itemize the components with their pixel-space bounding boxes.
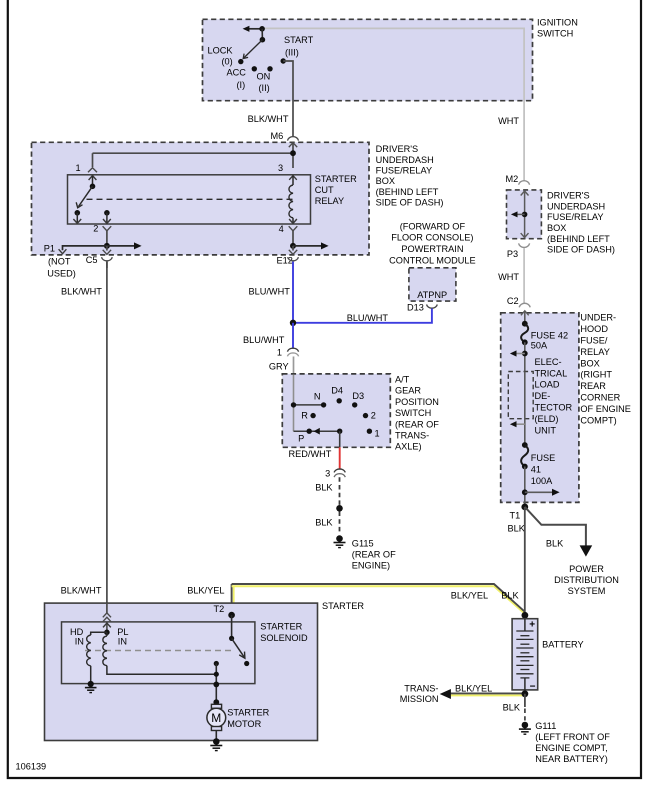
svg-text:UNDERDASH: UNDERDASH — [376, 155, 434, 165]
svg-text:ACC: ACC — [227, 68, 247, 78]
svg-text:BLK: BLK — [315, 483, 333, 493]
svg-text:3: 3 — [325, 468, 330, 478]
wire BLK dashed to splice — [339, 477, 341, 505]
pin 4 — [279, 224, 298, 246]
svg-text:BLK: BLK — [508, 524, 526, 534]
wire BLK/WHT into solenoid — [103, 603, 111, 632]
connector C5 — [86, 246, 113, 268]
svg-text:(RIGHT: (RIGHT — [580, 370, 612, 380]
svg-text:M6: M6 — [271, 131, 284, 141]
in-line connector 3 (RED/WHT to BLK) — [325, 468, 345, 478]
svg-text:STARTER: STARTER — [315, 174, 357, 184]
svg-text:41: 41 — [531, 465, 541, 475]
svg-text:C2: C2 — [507, 296, 519, 306]
wire through ELD — [524, 372, 526, 443]
contact R — [310, 413, 315, 418]
M2 box internal wire with arrows — [511, 191, 529, 239]
wire into box with arrow — [521, 311, 529, 323]
svg-text:+: + — [529, 619, 535, 630]
svg-text:MOTOR: MOTOR — [227, 719, 261, 729]
svg-text:D3: D3 — [352, 391, 364, 401]
svg-text:ATPNP: ATPNP — [417, 290, 447, 300]
svg-text:WHT: WHT — [498, 116, 519, 126]
A/T position labels — [298, 386, 380, 444]
svg-text:ON: ON — [257, 71, 271, 81]
node under pin 2 with P1 branch — [44, 242, 142, 278]
labels HD IN / PL IN — [70, 627, 128, 646]
svg-text:C5: C5 — [86, 255, 98, 265]
connector E12 — [277, 246, 299, 266]
svg-text:A/T: A/T — [395, 375, 410, 385]
svg-text:SYSTEM: SYSTEM — [568, 586, 606, 596]
wire BLK/YEL to transmission with arrow — [440, 689, 525, 699]
contact START — [281, 58, 286, 63]
svg-text:(REAR OF: (REAR OF — [395, 419, 439, 429]
underhood fuse/relay box — [501, 313, 579, 503]
solenoid junction — [104, 630, 110, 636]
svg-text:BLU/WHT: BLU/WHT — [249, 286, 291, 296]
wire RED/WHT — [339, 447, 341, 469]
contact D4 — [337, 398, 342, 403]
svg-text:LOCK: LOCK — [208, 45, 234, 55]
relay switch arm — [73, 184, 95, 224]
svg-text:SWITCH: SWITCH — [537, 29, 573, 39]
svg-text:SWITCH: SWITCH — [395, 408, 431, 418]
connector M6 — [271, 131, 299, 153]
svg-text:(0): (0) — [222, 57, 233, 67]
wire BLU/WHT junction to ATPNP — [293, 309, 432, 323]
fuse 42 50A — [521, 321, 568, 351]
label A/T GEAR POSITION SWITCH (REAR OF TRANS-AXLE) — [395, 375, 439, 452]
svg-text:ELEC-: ELEC- — [535, 357, 562, 367]
svg-text:POSITION: POSITION — [395, 397, 439, 407]
svg-text:M2: M2 — [506, 174, 519, 184]
svg-text:CUT: CUT — [315, 185, 334, 195]
svg-text:DRIVER'S: DRIVER'S — [547, 191, 590, 201]
svg-text:RELAY: RELAY — [315, 196, 344, 206]
svg-text:T1: T1 — [510, 511, 521, 521]
svg-text:1: 1 — [76, 163, 81, 173]
svg-text:−: − — [530, 681, 536, 692]
label STARTER CUT RELAY — [315, 174, 357, 206]
connector M2 — [506, 174, 530, 185]
svg-text:(FORWARD OF: (FORWARD OF — [400, 221, 466, 231]
labels BLK/YEL BLK — [187, 585, 519, 600]
svg-text:START: START — [284, 35, 314, 45]
svg-text:1: 1 — [277, 348, 282, 358]
svg-text:(II): (II) — [259, 83, 270, 93]
connector P3 — [507, 243, 530, 259]
pin 1 — [76, 163, 98, 186]
wire BLK to G111 — [524, 694, 526, 707]
svg-text:SIDE OF DASH): SIDE OF DASH) — [376, 198, 444, 208]
wire to T1 with right-arrow tap — [522, 467, 560, 507]
wire WHT P3 to C2 — [523, 248, 525, 303]
svg-text:N: N — [314, 391, 321, 401]
svg-text:(I): (I) — [237, 80, 246, 90]
svg-text:GRY: GRY — [269, 361, 289, 371]
ignition position labels — [208, 35, 314, 93]
svg-text:WHT: WHT — [498, 272, 519, 282]
svg-text:FUSE/RELAY: FUSE/RELAY — [547, 212, 604, 222]
svg-text:BOX: BOX — [547, 223, 566, 233]
label ELECTRICAL LOAD DETECTOR (ELD) UNIT — [535, 357, 573, 436]
starter cut relay outer dashed box (driver's underdash fuse/relay box) — [32, 142, 370, 255]
svg-text:TECTOR: TECTOR — [535, 403, 573, 413]
wire BLU/WHT junction down — [292, 323, 294, 348]
battery — [512, 612, 538, 692]
battery bottom junction — [522, 690, 529, 697]
svg-text:(REAR OF: (REAR OF — [352, 549, 396, 559]
svg-text:FLOOR CONSOLE): FLOOR CONSOLE) — [391, 233, 473, 243]
starter motor — [207, 704, 226, 740]
left-arrow tap below ELD — [510, 421, 525, 427]
svg-text:REAR: REAR — [580, 381, 606, 391]
node under pin 4 with arrow — [290, 242, 329, 249]
svg-text:BLK/YEL: BLK/YEL — [455, 683, 492, 693]
label DRIVER'S UNDERDASH FUSE/RELAY BOX (BEHIND LEFT SIDE OF DASH) — [547, 191, 615, 255]
svg-text:G111: G111 — [535, 721, 556, 731]
svg-text:STARTER: STARTER — [260, 622, 302, 632]
svg-text:BLK/YEL: BLK/YEL — [187, 585, 224, 595]
label (FORWARD OF FLOOR CONSOLE) POWERTRAIN CONTROL MODULE — [389, 221, 475, 265]
svg-text:D13: D13 — [407, 303, 424, 313]
svg-text:BLU/WHT: BLU/WHT — [243, 335, 285, 345]
svg-text:POWER: POWER — [569, 564, 604, 574]
svg-text:(BEHIND LEFT: (BEHIND LEFT — [547, 234, 610, 244]
svg-text:OF ENGINE: OF ENGINE — [580, 404, 631, 414]
starter solenoid box — [62, 622, 255, 684]
wire GRY down into A/T box — [293, 357, 295, 405]
svg-text:IN: IN — [118, 637, 127, 647]
labels TRANS-MISSION BLK/YEL — [400, 683, 493, 704]
svg-text:HOOD: HOOD — [580, 324, 608, 334]
svg-text:UNDER-: UNDER- — [580, 313, 616, 323]
svg-text:2: 2 — [371, 411, 376, 421]
label STARTER SOLENOID — [260, 622, 308, 643]
coil PL IN — [103, 632, 216, 674]
svg-text:(LEFT FRONT OF: (LEFT FRONT OF — [535, 732, 610, 742]
contact D3 — [352, 402, 357, 407]
svg-text:(BEHIND LEFT: (BEHIND LEFT — [376, 187, 439, 197]
svg-text:BLK: BLK — [501, 591, 519, 601]
solenoid dashed link — [85, 650, 232, 652]
label DRIVER'S UNDERDASH FUSE/RELAY BOX (BEHIND LEFT SIDE OF DASH) — [376, 144, 444, 208]
pcm ATPNP box — [409, 268, 456, 301]
wire BLK T1 to battery — [524, 507, 526, 615]
svg-text:BLK/YEL: BLK/YEL — [451, 591, 488, 601]
connector D13 — [407, 303, 437, 313]
svg-text:LOAD: LOAD — [535, 380, 560, 390]
svg-text:TRICAL: TRICAL — [535, 368, 568, 378]
fuse 41 100A — [521, 442, 555, 486]
svg-text:BLK: BLK — [315, 517, 333, 527]
svg-text:IN: IN — [75, 637, 84, 647]
ground (starter motor) — [210, 738, 222, 750]
relay internal dashed link — [87, 198, 294, 200]
wire node M6 to pin1 and pin3 — [289, 143, 297, 148]
A/T switch internal wiring — [293, 375, 295, 432]
svg-text:ENGINE COMPT,: ENGINE COMPT, — [535, 743, 608, 753]
wire BLK/WHT C5 to starter — [106, 262, 108, 603]
ground (solenoid HD coil) — [85, 681, 97, 693]
in-line connector 1 (BLU/WHT to GRY) — [269, 348, 299, 372]
junction at pin3 wire — [290, 150, 296, 156]
svg-text:CORNER: CORNER — [580, 393, 620, 403]
svg-text:GEAR: GEAR — [395, 386, 421, 396]
svg-text:BLK/WHT: BLK/WHT — [248, 114, 289, 124]
svg-text:106139: 106139 — [16, 762, 47, 772]
ground G115 — [334, 535, 346, 547]
svg-text:P: P — [298, 433, 304, 443]
A/T gear position switch box — [282, 374, 390, 447]
svg-text:BLK/WHT: BLK/WHT — [61, 585, 102, 595]
solenoid switch arm — [229, 636, 249, 666]
arm arrow toward P — [314, 428, 320, 435]
svg-text:(ELD): (ELD) — [535, 414, 559, 424]
svg-text:STARTER: STARTER — [322, 601, 364, 611]
svg-text:G115: G115 — [352, 538, 374, 548]
coil HD IN — [87, 632, 107, 684]
contact LOCK — [238, 59, 243, 64]
pin 2 — [93, 210, 111, 246]
T2 terminal — [214, 604, 235, 638]
svg-text:RELAY: RELAY — [580, 347, 609, 357]
svg-text:NEAR BATTERY): NEAR BATTERY) — [535, 754, 608, 764]
junction node — [290, 320, 296, 326]
relay coil — [289, 185, 293, 218]
label IGNITION SWITCH — [537, 17, 578, 38]
contact ACC — [252, 66, 257, 71]
svg-text:BOX: BOX — [376, 176, 395, 186]
svg-text:CONTROL MODULE: CONTROL MODULE — [389, 255, 475, 265]
svg-text:RED/WHT: RED/WHT — [289, 449, 332, 459]
svg-text:SIDE OF DASH): SIDE OF DASH) — [547, 245, 615, 255]
svg-text:STARTER: STARTER — [227, 708, 269, 718]
contact 2 — [363, 413, 368, 418]
label UNDER-HOOD FUSE/RELAY BOX (RIGHT REAR CORNER OF ENGINE COMPT) — [580, 313, 631, 426]
svg-text:(III): (III) — [285, 47, 299, 57]
contact ON — [267, 66, 272, 71]
svg-text:P3: P3 — [507, 249, 518, 259]
svg-text:FUSE/RELAY: FUSE/RELAY — [376, 166, 433, 176]
svg-text:D4: D4 — [331, 386, 343, 396]
svg-text:FUSE: FUSE — [531, 453, 556, 463]
contact 1 — [367, 429, 372, 434]
label STARTER MOTOR — [227, 708, 269, 730]
svg-text:4: 4 — [279, 224, 284, 234]
svg-text:R: R — [301, 411, 308, 421]
svg-text:P1: P1 — [44, 243, 55, 253]
wire WHT from ignition switch to M2 (light gray) — [262, 28, 524, 180]
node to N — [291, 402, 296, 407]
svg-text:M: M — [211, 711, 221, 725]
label G115 (REAR OF ENGINE) — [352, 538, 396, 570]
label POWER DISTRIBUTION SYSTEM — [554, 564, 619, 596]
junction T1 — [521, 504, 528, 511]
pin 3 coil — [278, 163, 297, 224]
svg-text:AXLE): AXLE) — [395, 442, 422, 452]
label T1 / BLK — [508, 511, 526, 534]
svg-text:TRANS-: TRANS- — [395, 431, 429, 441]
svg-text:COMPT): COMPT) — [580, 416, 616, 426]
svg-text:TRANS-: TRANS- — [404, 683, 438, 693]
ignition switch contacts and arm — [238, 26, 286, 72]
svg-text:BLK: BLK — [503, 702, 521, 712]
svg-text:FUSE/: FUSE/ — [580, 336, 608, 346]
svg-text:UNIT: UNIT — [535, 425, 557, 435]
ground G111 — [519, 722, 531, 735]
ELD dashed box — [508, 372, 533, 419]
svg-text:DE-: DE- — [535, 391, 551, 401]
wire BLK dashed to ground — [339, 512, 341, 534]
svg-text:3: 3 — [278, 163, 283, 173]
svg-text:(NOT: (NOT — [48, 257, 71, 267]
svg-text:UNDERDASH: UNDERDASH — [547, 201, 605, 211]
wire BLK/YEL horizontal from T2 to battery — [232, 584, 525, 615]
connector C2 — [507, 296, 530, 307]
svg-text:DISTRIBUTION: DISTRIBUTION — [554, 575, 619, 585]
svg-text:BLK: BLK — [546, 538, 564, 548]
svg-text:BLK/WHT: BLK/WHT — [61, 286, 102, 296]
wire BLU/WHT E12 down — [292, 262, 294, 323]
splice node — [336, 505, 343, 512]
svg-text:MISSION: MISSION — [400, 694, 439, 704]
label G111 (LEFT FRONT OF ENGINE COMPT, NEAR BATTERY) — [535, 721, 610, 764]
svg-text:50A: 50A — [531, 341, 548, 351]
wire BLK/WHT from START to M6 — [283, 61, 293, 136]
svg-text:T2: T2 — [214, 604, 225, 614]
svg-text:2: 2 — [93, 224, 98, 234]
svg-text:BLU/WHT: BLU/WHT — [347, 313, 389, 323]
output node — [337, 429, 342, 434]
svg-text:FUSE 42: FUSE 42 — [531, 330, 568, 340]
svg-text:IGNITION: IGNITION — [537, 17, 578, 27]
solenoid fixed contact and output — [213, 661, 219, 705]
svg-text:DRIVER'S: DRIVER'S — [376, 144, 419, 154]
svg-text:1: 1 — [375, 429, 380, 439]
svg-text:BATTERY: BATTERY — [542, 640, 584, 650]
contact N — [321, 402, 326, 407]
svg-text:USED): USED) — [47, 268, 76, 278]
svg-text:BOX: BOX — [580, 359, 599, 369]
svg-text:100A: 100A — [531, 476, 553, 486]
starter cut relay inner box — [68, 175, 311, 224]
wire and left-arrow tap — [510, 342, 528, 371]
starter box — [45, 603, 318, 740]
wire from A/T output — [339, 431, 341, 447]
svg-text:SOLENOID: SOLENOID — [260, 633, 308, 643]
svg-text:ENGINE): ENGINE) — [352, 560, 390, 570]
svg-text:POWERTRAIN: POWERTRAIN — [401, 244, 463, 254]
branch to power distribution system — [525, 507, 592, 557]
contact P — [307, 429, 312, 434]
ignition switch box — [203, 19, 533, 100]
driver's underdash fuse/relay box (M2/P3) — [507, 190, 542, 239]
